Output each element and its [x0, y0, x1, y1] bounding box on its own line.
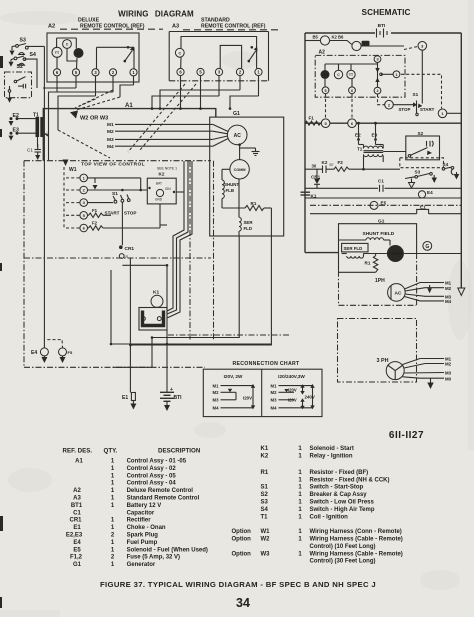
svg-text:GND: GND: [155, 198, 163, 202]
svg-text:I20V, 2W: I20V, 2W: [224, 374, 243, 379]
svg-text:Wiring Harness (Conn - Remote): Wiring Harness (Conn - Remote): [310, 529, 402, 535]
svg-text:S2: S2: [261, 492, 269, 498]
svg-text:COMM: COMM: [234, 168, 246, 172]
svg-text:STOP: STOP: [399, 107, 411, 112]
svg-text:T1: T1: [261, 514, 269, 520]
svg-text:B7: B7: [330, 163, 334, 167]
svg-text:F1,2: F1,2: [70, 555, 83, 561]
svg-text:T1: T1: [357, 147, 363, 152]
svg-text:AC: AC: [395, 291, 402, 297]
svg-text:S4: S4: [443, 162, 449, 167]
svg-text:R1: R1: [251, 201, 257, 206]
svg-text:2: 2: [376, 89, 378, 93]
svg-text:M3: M3: [445, 371, 452, 376]
svg-text:K1: K1: [153, 290, 159, 296]
svg-text:REMOTE CONTROL (REF): REMOTE CONTROL (REF): [201, 23, 266, 29]
svg-text:STOP: STOP: [124, 211, 136, 216]
svg-text:I20V: I20V: [288, 398, 297, 403]
svg-text:Control) (10 Feet Long): Control) (10 Feet Long): [310, 544, 376, 550]
svg-text:A2: A2: [48, 24, 55, 30]
svg-text:S1: S1: [413, 92, 419, 97]
svg-text:Option: Option: [232, 529, 252, 535]
svg-text:W3: W3: [261, 551, 271, 557]
svg-text:M4: M4: [445, 299, 452, 304]
svg-text:W2: W2: [261, 537, 271, 543]
svg-text:A1: A1: [75, 459, 83, 465]
svg-text:START: START: [105, 211, 120, 216]
svg-text:Relay - Ignition: Relay - Ignition: [310, 454, 353, 460]
svg-text:CR1: CR1: [69, 518, 82, 524]
svg-text:W1: W1: [261, 529, 271, 535]
svg-text:34: 34: [236, 596, 250, 610]
svg-text:K2: K2: [322, 160, 328, 165]
svg-text:Control Assy - 04: Control Assy - 04: [127, 481, 177, 487]
svg-text:M4: M4: [213, 406, 220, 411]
svg-text:AC: AC: [234, 133, 242, 139]
svg-text:M1: M1: [107, 122, 114, 128]
svg-text:Option: Option: [232, 537, 252, 543]
svg-text:E2,E3: E2,E3: [66, 533, 83, 539]
svg-text:Breaker & Cap Assy: Breaker & Cap Assy: [310, 492, 368, 498]
svg-text:C1: C1: [27, 148, 33, 153]
svg-text:E3: E3: [372, 132, 378, 137]
svg-text:Fuse (5 Amp, 32 V): Fuse (5 Amp, 32 V): [127, 555, 180, 561]
svg-text:SER FLD: SER FLD: [344, 246, 363, 251]
svg-text:G1: G1: [73, 562, 82, 568]
svg-text:I20V: I20V: [243, 396, 252, 401]
svg-text:COMM: COMM: [389, 251, 403, 256]
svg-text:S2: S2: [418, 131, 424, 136]
svg-text:E4: E4: [31, 350, 37, 356]
svg-text:Rectifier: Rectifier: [127, 518, 152, 524]
svg-text:S2: S2: [17, 64, 23, 70]
svg-text:Switch - Low Oil Press: Switch - Low Oil Press: [310, 500, 375, 506]
svg-text:E5: E5: [381, 201, 387, 206]
svg-text:Battery 12 V: Battery 12 V: [127, 503, 162, 509]
svg-text:Deluxe Remote Control: Deluxe Remote Control: [127, 488, 194, 494]
svg-text:M4: M4: [271, 406, 278, 411]
svg-text:I20/240V,3W: I20/240V,3W: [278, 374, 305, 379]
svg-text:30: 30: [312, 164, 317, 169]
svg-text:RECONNECTION CHART: RECONNECTION CHART: [232, 361, 300, 367]
svg-text:BAT: BAT: [156, 182, 162, 186]
svg-text:S1: S1: [261, 485, 269, 491]
svg-text:WIRING DIAGRAM: WIRING DIAGRAM: [118, 10, 194, 19]
svg-text:SER: SER: [244, 220, 254, 225]
svg-text:W2 OR W3: W2 OR W3: [80, 116, 108, 122]
svg-text:A2: A2: [319, 50, 326, 56]
svg-text:Switch - Start-Stop: Switch - Start-Stop: [310, 485, 364, 491]
svg-text:RCM: RCM: [322, 73, 329, 77]
svg-text:A2: A2: [73, 488, 81, 494]
svg-text:M2: M2: [271, 390, 278, 395]
svg-text:C: C: [178, 52, 181, 56]
svg-text:Spark Plug: Spark Plug: [127, 533, 159, 539]
svg-text:.: .: [372, 27, 373, 32]
svg-text:QTY.: QTY.: [104, 448, 118, 455]
svg-text:Resistor - Fixed (NH & CCK): Resistor - Fixed (NH & CCK): [310, 477, 390, 483]
svg-text:R1: R1: [261, 470, 269, 476]
svg-text:M2: M2: [445, 286, 452, 291]
svg-text:S4: S4: [261, 507, 269, 513]
svg-text:Capacitor: Capacitor: [127, 510, 155, 516]
svg-text:Control Assy - 01 -05: Control Assy - 01 -05: [127, 459, 187, 465]
svg-text:Resistor - Fixed (BF): Resistor - Fixed (BF): [310, 470, 369, 476]
svg-text:Option: Option: [232, 551, 252, 557]
svg-text:240V: 240V: [305, 395, 315, 400]
svg-text:M3: M3: [271, 398, 278, 403]
svg-text:TOP VIEW OF CONTROL: TOP VIEW OF CONTROL: [81, 162, 145, 168]
svg-text:SCHEMATIC: SCHEMATIC: [362, 8, 411, 17]
svg-text:START: START: [420, 107, 435, 112]
svg-text:S3: S3: [261, 500, 269, 506]
svg-text:1PH: 1PH: [375, 278, 385, 284]
svg-text:R1: R1: [365, 261, 371, 266]
svg-text:M3: M3: [213, 398, 220, 403]
svg-text:F1: F1: [92, 208, 98, 213]
svg-text:M2: M2: [213, 390, 220, 395]
svg-text:Solenoid - Start: Solenoid - Start: [310, 446, 354, 452]
svg-text:Standard Remote Control: Standard Remote Control: [127, 496, 200, 502]
svg-text:REF. DES.: REF. DES.: [63, 448, 93, 455]
svg-text:S4: S4: [30, 52, 36, 58]
svg-text:DESCRIPTION: DESCRIPTION: [158, 448, 201, 455]
svg-text:3: 3: [376, 58, 378, 62]
svg-text:SHUNT: SHUNT: [224, 182, 239, 187]
svg-text:CR1: CR1: [125, 246, 135, 252]
svg-text:B5: B5: [313, 35, 319, 40]
svg-text:Wiring Harness (Cable - Remote: Wiring Harness (Cable - Remote): [310, 551, 403, 557]
svg-text:FLB: FLB: [226, 188, 235, 193]
svg-text:A3: A3: [172, 24, 179, 30]
svg-text:M2: M2: [445, 362, 452, 367]
svg-text:M2: M2: [107, 129, 114, 135]
svg-text:5: 5: [324, 89, 326, 93]
svg-text:E1: E1: [420, 205, 426, 210]
svg-text:BT1: BT1: [71, 503, 83, 509]
svg-text:6: 6: [351, 89, 353, 93]
svg-text:RCM: RCM: [75, 52, 82, 56]
svg-text:Wiring Harness (Cable - Remote: Wiring Harness (Cable - Remote): [310, 537, 403, 543]
svg-text:G1: G1: [233, 111, 240, 117]
svg-text:G: G: [425, 244, 429, 250]
svg-text:R: R: [126, 255, 129, 259]
svg-text:6II-II27: 6II-II27: [389, 430, 424, 441]
svg-text:W1: W1: [69, 167, 77, 173]
svg-text:Fuel Pump: Fuel Pump: [127, 540, 158, 546]
svg-text:F5: F5: [68, 350, 73, 355]
svg-text:Control Assy - 02: Control Assy - 02: [127, 466, 177, 472]
svg-text:FIGURE 37. TYPICAL WIRING DIAG: FIGURE 37. TYPICAL WIRING DIAGRAM - BF S…: [100, 580, 376, 589]
svg-text:F1: F1: [309, 116, 315, 121]
svg-text:C1: C1: [73, 510, 81, 516]
svg-text:E1: E1: [122, 395, 128, 401]
svg-text:K2 B6: K2 B6: [332, 35, 345, 40]
svg-text:SEE NOTE 1: SEE NOTE 1: [157, 167, 177, 171]
svg-text:.: .: [390, 27, 391, 32]
svg-text:REMOTE CONTROL (REF): REMOTE CONTROL (REF): [80, 23, 145, 29]
svg-text:M0: M0: [445, 376, 452, 381]
svg-text:Generator: Generator: [127, 562, 156, 568]
svg-text:E4: E4: [73, 540, 81, 546]
svg-text:K1: K1: [261, 446, 269, 452]
svg-text:S3: S3: [415, 170, 421, 175]
svg-text:FLD: FLD: [244, 226, 253, 231]
svg-text:M1: M1: [271, 383, 278, 388]
svg-text:Solenoid - Fuel (When Used): Solenoid - Fuel (When Used): [127, 547, 208, 553]
svg-text:BTI: BTI: [378, 23, 386, 29]
svg-text:Control) (30 Feet Long): Control) (30 Feet Long): [310, 559, 376, 565]
svg-text:Control Assy - 05: Control Assy - 05: [127, 473, 177, 479]
svg-text:I20V: I20V: [288, 387, 297, 392]
svg-text:K2: K2: [159, 172, 165, 177]
svg-text:C: C: [66, 43, 69, 47]
svg-text:3 PH: 3 PH: [377, 358, 389, 364]
svg-text:F2: F2: [338, 160, 344, 165]
svg-text:E1: E1: [73, 525, 81, 531]
svg-text:M3: M3: [107, 137, 114, 143]
svg-text:C1: C1: [378, 178, 384, 183]
svg-text:Coil - Ignition: Coil - Ignition: [310, 514, 349, 520]
svg-text:M4: M4: [107, 144, 114, 150]
svg-text:F2: F2: [92, 221, 98, 226]
svg-text:K1: K1: [363, 42, 367, 46]
svg-text:1: 1: [395, 73, 397, 77]
svg-text:Switch - High Air Temp: Switch - High Air Temp: [310, 507, 375, 513]
svg-text:E4: E4: [427, 190, 433, 195]
svg-text:S3: S3: [20, 38, 26, 44]
svg-text:IGN: IGN: [165, 187, 171, 191]
svg-text:E5: E5: [73, 547, 81, 553]
svg-text:A3: A3: [73, 496, 81, 502]
svg-text:K2: K2: [261, 454, 269, 460]
svg-text:Choke - Onan: Choke - Onan: [127, 525, 166, 531]
svg-text:M1: M1: [213, 383, 220, 388]
svg-text:SHUNT FIELD: SHUNT FIELD: [363, 231, 395, 237]
svg-text:BTI: BTI: [174, 395, 183, 401]
